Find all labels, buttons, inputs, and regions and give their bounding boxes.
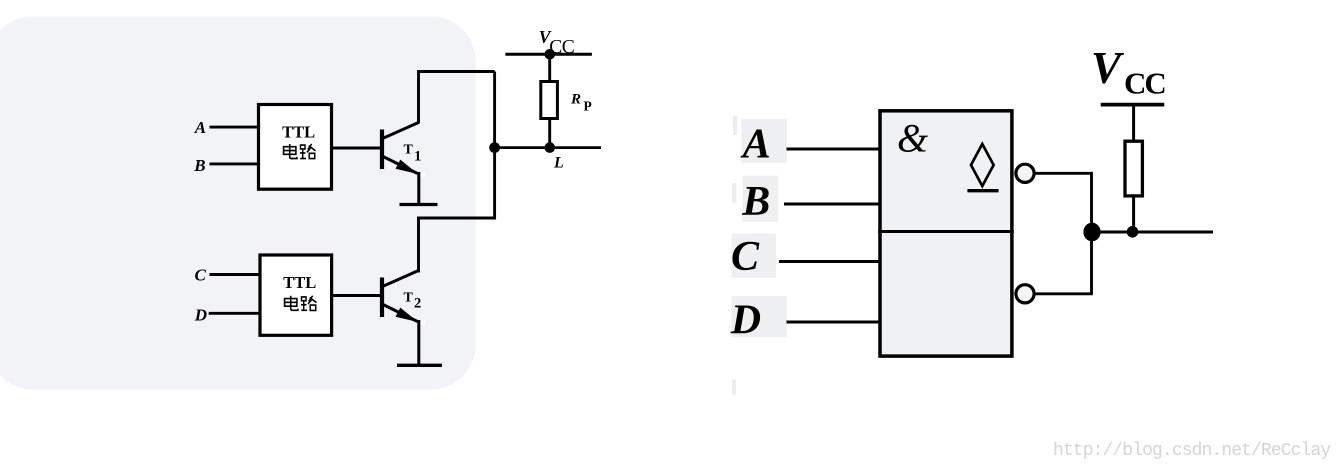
svg-text:1: 1 [414,148,422,164]
wire input C [779,260,880,263]
wire T1 collector up and over [419,72,495,124]
label RP [570,91,592,113]
svg-text:A: A [194,118,206,137]
svg-text:D: D [194,306,207,325]
VCC rail (right) [1101,103,1165,107]
resistor RP [541,54,558,147]
wire U1 output to T1 base [332,147,382,150]
label VCC (right) [1091,43,1165,101]
svg-text:B: B [741,179,770,225]
wire input A [210,126,260,129]
gate section divider [878,230,1014,233]
wire T1 emitter to ground [417,172,420,205]
white artifact near T1 arrow [421,173,425,177]
label T2 [404,290,422,311]
inversion bubble (bottom output) [1016,285,1034,303]
svg-text:P: P [584,98,592,113]
wire input B [210,162,260,165]
label VCC (left) [539,27,575,58]
svg-text:C: C [195,266,207,285]
node L [545,142,556,153]
background panel [0,17,476,390]
svg-text:T: T [404,142,414,157]
AND gate body U3 [880,111,1012,356]
label A background [742,119,788,163]
wire U2 output to T2 base [333,294,382,297]
wire top bubble to node [1035,173,1092,232]
label 电路 (U2) [285,296,317,311]
output node junction [1083,223,1100,242]
svg-text:&: & [897,116,928,161]
TTL box U2 [260,255,332,335]
svg-text:R: R [570,91,581,107]
label C background [732,233,777,277]
faint strip artifact bottom [732,380,736,395]
resistor junction dot [1127,226,1139,238]
open-collector symbol (diamond) [967,144,998,191]
label 电路 (U1) [284,144,316,159]
wire common collector bus [419,72,495,273]
label D background [732,296,787,337]
transistor T1 [382,123,419,174]
wire input A [787,148,880,151]
T1 emitter arrowhead [396,160,419,174]
wire output L [495,146,601,149]
ground of T2 [397,364,442,367]
wire T2 emitter to ground [417,320,420,365]
VCC junction dot [545,49,556,60]
svg-text:TTL: TTL [282,123,315,142]
TTL box U1 [259,105,332,190]
ground of T1 [400,203,438,206]
svg-text:V: V [1091,43,1125,93]
svg-text:2: 2 [414,295,421,311]
white artifact near T2 arrow [421,321,425,325]
label T1 [404,142,422,164]
faint strip artifact middle [732,183,737,203]
wire input B [784,203,880,206]
svg-text:CC: CC [1124,66,1165,101]
wire output [1092,231,1213,234]
label B background [743,176,779,222]
node junction (collectors) [489,142,500,153]
wire input C [210,273,260,276]
transistor T2 [382,271,419,322]
watermark [1053,441,1330,461]
wire input D [787,321,880,324]
wire input D [209,312,260,315]
svg-text:CC: CC [549,37,574,58]
svg-text:L: L [553,154,564,171]
svg-text:TTL: TTL [283,273,316,292]
T2 emitter arrowhead [396,308,419,322]
faint strip artifact top [733,116,737,135]
svg-text:A: A [740,121,771,167]
svg-text:T: T [404,290,414,305]
svg-text:D: D [730,298,761,344]
svg-text:B: B [193,156,205,175]
svg-text:C: C [731,234,760,280]
inversion bubble (top output) [1016,164,1034,182]
VCC rail (left) [505,53,592,56]
pull-up resistor [1125,105,1142,232]
wire bottom bubble to node [1035,232,1092,294]
